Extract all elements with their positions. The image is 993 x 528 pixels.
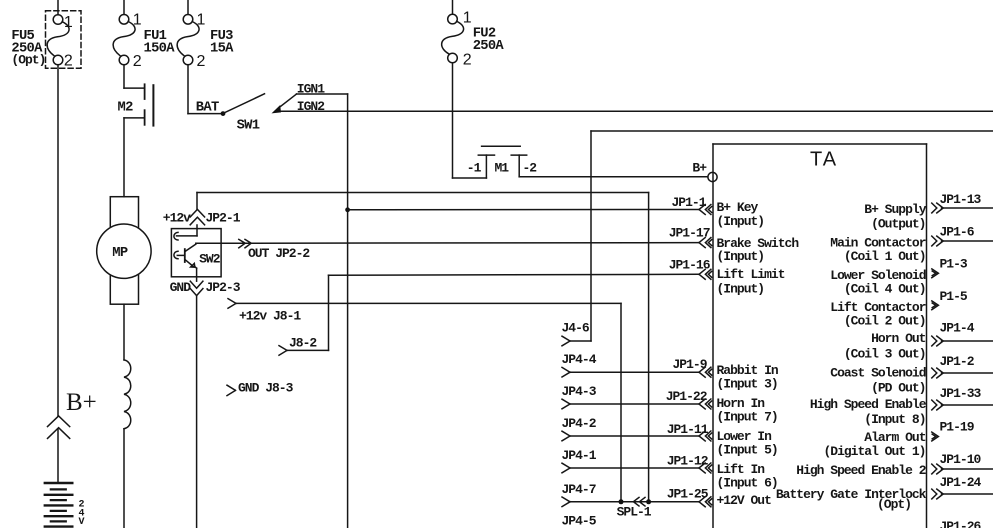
- svg-text:Lift Limit: Lift Limit: [717, 267, 785, 282]
- svg-text:(Digital Out 1): (Digital Out 1): [823, 444, 925, 459]
- svg-text:(Opt): (Opt): [11, 53, 45, 68]
- svg-text:Coast Solenoid: Coast Solenoid: [830, 366, 925, 381]
- svg-text:MP: MP: [112, 246, 128, 261]
- svg-text:(Input): (Input): [717, 249, 765, 264]
- svg-text:15A: 15A: [210, 42, 234, 57]
- svg-text:JP1-22: JP1-22: [666, 389, 708, 404]
- svg-text:JP1-12: JP1-12: [667, 454, 709, 469]
- svg-text:JP1-4: JP1-4: [940, 321, 975, 336]
- svg-text:(Coil 2 Out): (Coil 2 Out): [844, 314, 926, 329]
- svg-text:(Input 8): (Input 8): [864, 412, 925, 427]
- svg-text:P1-19: P1-19: [940, 420, 975, 435]
- svg-text:JP1-17: JP1-17: [669, 226, 710, 241]
- svg-text:B+: B+: [66, 389, 97, 416]
- svg-text:TA: TA: [810, 149, 838, 171]
- svg-text:SW1: SW1: [237, 119, 260, 134]
- svg-text:250A: 250A: [473, 39, 505, 54]
- svg-text:High Speed Enable: High Speed Enable: [810, 397, 927, 412]
- svg-text:JP4-1: JP4-1: [562, 448, 597, 463]
- svg-text:V: V: [79, 517, 85, 528]
- svg-text:(Input): (Input): [717, 214, 765, 229]
- svg-text:GND: GND: [170, 280, 192, 295]
- svg-text:J4-6: J4-6: [562, 321, 590, 336]
- svg-text:Alarm Out: Alarm Out: [864, 430, 925, 445]
- svg-text:JP1-10: JP1-10: [940, 452, 982, 467]
- svg-text:High Speed Enable 2: High Speed Enable 2: [796, 463, 926, 478]
- svg-text:M2: M2: [118, 101, 134, 116]
- svg-text:JP1-33: JP1-33: [940, 386, 982, 401]
- svg-text:(Coil 4 Out): (Coil 4 Out): [844, 282, 926, 297]
- svg-text:+12v: +12v: [163, 211, 191, 226]
- svg-text:B+ Key: B+ Key: [717, 200, 759, 215]
- svg-text:JP1-25: JP1-25: [667, 487, 709, 502]
- svg-text:OUT JP2-2: OUT JP2-2: [248, 246, 310, 261]
- svg-text:(Input 7): (Input 7): [717, 410, 778, 425]
- svg-text:(PD Out): (PD Out): [871, 381, 925, 396]
- svg-text:(Coil 1 Out): (Coil 1 Out): [844, 249, 926, 264]
- svg-text:JP1-2: JP1-2: [940, 354, 975, 369]
- svg-text:(Input 6): (Input 6): [717, 476, 778, 491]
- svg-text:JP2-1: JP2-1: [206, 211, 241, 226]
- svg-text:1: 1: [197, 12, 206, 29]
- svg-text:150A: 150A: [144, 42, 176, 57]
- svg-text:J8-2: J8-2: [289, 335, 317, 350]
- svg-text:Horn Out: Horn Out: [871, 331, 926, 346]
- svg-text:B+ Supply: B+ Supply: [864, 202, 926, 217]
- svg-text:(Input): (Input): [717, 282, 765, 297]
- svg-text:2: 2: [463, 52, 472, 69]
- svg-text:B+: B+: [692, 161, 707, 176]
- svg-text:(Input 3): (Input 3): [717, 377, 778, 392]
- svg-text:JP1-6: JP1-6: [940, 224, 975, 239]
- svg-text:IGN1: IGN1: [297, 81, 325, 96]
- svg-text:P1-3: P1-3: [940, 257, 968, 272]
- svg-text:P1-5: P1-5: [940, 289, 968, 304]
- svg-text:+12v J8-1: +12v J8-1: [239, 309, 301, 324]
- svg-text:JP1-26: JP1-26: [940, 519, 982, 528]
- svg-text:SW2: SW2: [199, 251, 221, 266]
- svg-text:SPL-1: SPL-1: [617, 505, 652, 520]
- svg-text:JP4-2: JP4-2: [562, 416, 597, 431]
- svg-text:2: 2: [197, 53, 206, 70]
- svg-text:JP1-13: JP1-13: [940, 192, 982, 207]
- svg-text:1: 1: [463, 10, 472, 27]
- svg-text:JP2-3: JP2-3: [206, 280, 241, 295]
- svg-text:(Output): (Output): [871, 217, 925, 232]
- svg-text:BAT: BAT: [196, 101, 219, 116]
- svg-text:2: 2: [133, 53, 142, 70]
- svg-text:JP4-5: JP4-5: [562, 514, 597, 528]
- svg-text:JP1-16: JP1-16: [669, 258, 711, 273]
- svg-text:JP1-11: JP1-11: [667, 422, 709, 437]
- svg-text:(Opt): (Opt): [877, 497, 911, 512]
- svg-text:JP4-3: JP4-3: [562, 384, 597, 399]
- svg-text:-1: -1: [467, 160, 482, 175]
- svg-text:(Input 5): (Input 5): [717, 443, 778, 458]
- svg-text:JP1-24: JP1-24: [940, 475, 982, 490]
- svg-text:IGN2: IGN2: [297, 99, 325, 114]
- svg-text:(Coil 3 Out): (Coil 3 Out): [844, 347, 926, 362]
- svg-text:+12V Out: +12V Out: [717, 493, 772, 508]
- svg-text:JP4-4: JP4-4: [562, 352, 597, 367]
- svg-text:1: 1: [133, 12, 142, 29]
- svg-text:JP1-1: JP1-1: [671, 195, 706, 210]
- svg-text:2: 2: [64, 53, 73, 70]
- svg-text:-2: -2: [523, 160, 538, 175]
- svg-text:JP4-7: JP4-7: [562, 482, 596, 497]
- svg-text:M1: M1: [495, 160, 510, 175]
- svg-text:1: 1: [64, 14, 73, 31]
- svg-text:JP1-9: JP1-9: [672, 357, 707, 372]
- svg-text:GND J8-3: GND J8-3: [238, 381, 294, 396]
